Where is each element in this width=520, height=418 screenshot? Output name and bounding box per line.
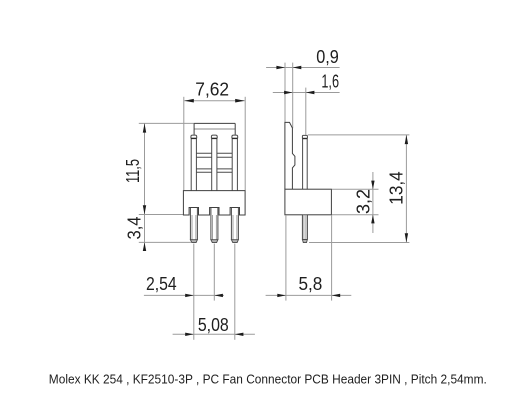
front view: base block with pin notches [183, 191, 245, 215]
svg-text:3,4: 3,4 [125, 217, 145, 240]
dimension 3,2 arrows [371, 181, 374, 224]
dimension 3,4 arrow (outside, below) [143, 242, 146, 251]
dimension 1,6 line [273, 92, 340, 94]
dimension 11,5 arrows [143, 123, 146, 214]
dimension 5,08 arrows [185, 333, 243, 336]
front view: solder pin 1 (below base) [190, 208, 197, 243]
svg-text:5,8: 5,8 [298, 274, 322, 294]
side view: base block [285, 189, 332, 215]
front view: solder pin 3 (below base) [231, 208, 238, 243]
dimension 0,9 line [266, 67, 340, 69]
dimension 2,54 / 5,08 extension lines (pin centres) [194, 244, 235, 340]
side view: solder pin (below base) [302, 215, 307, 243]
side view: pin (above base) [302, 135, 307, 189]
side view: housing wall profile with latch [285, 122, 295, 189]
svg-text:2,54: 2,54 [146, 274, 177, 294]
dimension 2,54 line [144, 294, 224, 296]
svg-text:3,2: 3,2 [354, 189, 374, 214]
dimension 5,8 line [266, 294, 352, 296]
dimension 7,62 arrows [184, 99, 244, 103]
front view: housing top box [194, 123, 235, 134]
dimension 7,62 line [184, 100, 244, 102]
svg-text:7,62: 7,62 [195, 79, 229, 99]
dimension 13,4 arrows [405, 135, 408, 243]
front view: pin 2 (above base) [211, 135, 217, 191]
svg-text:13,4: 13,4 [387, 171, 407, 204]
side view: 0,9 / 1,6 extension lines [285, 63, 306, 135]
dimension 13,4 extension lines [308, 135, 410, 243]
front view: pin 3 (above base) [232, 135, 238, 191]
dimension 5,08 line [173, 333, 255, 335]
front view: contact rails (horizontal ribs between pins) [197, 153, 233, 172]
svg-text:11,5: 11,5 [123, 159, 143, 183]
svg-text:1,6: 1,6 [321, 71, 339, 91]
dimension 1,6 arrows [284, 91, 314, 94]
svg-text:0,9: 0,9 [316, 47, 339, 67]
svg-text:5,08: 5,08 [198, 315, 229, 335]
dimension 3,2 extension lines [332, 172, 379, 233]
dimension 11,5 / 3,4 extension lines [139, 123, 194, 251]
front view: solder pin 2 (below base) [211, 208, 218, 243]
dimension 5,8 arrows [277, 294, 340, 297]
dimension 5,8 extension lines [286, 215, 332, 301]
dimension 0,9 arrows [276, 66, 301, 69]
front view: 7.62 extension lines (gray verticals to base corners) [184, 97, 245, 191]
dimension 2,54 arrows [185, 294, 223, 297]
front view: pin 1 (above base) [191, 135, 197, 191]
svg-text:Molex KK 254 , KF2510-3P , PC: Molex KK 254 , KF2510-3P , PC Fan Connec… [49, 372, 487, 387]
